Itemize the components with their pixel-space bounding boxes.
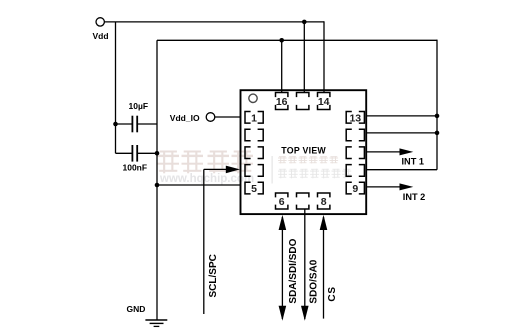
- pin 1: [245, 112, 251, 124]
- node cap top junction: [113, 122, 118, 127]
- wire SDA/SDI/SDO: [281, 217, 283, 319]
- wire pin10: [366, 169, 437, 171]
- ground symbol: [145, 319, 167, 321]
- pin 9: [346, 182, 352, 194]
- svg-text:6: 6: [279, 196, 285, 208]
- svg-text:9: 9: [352, 183, 358, 195]
- arrow SCL/SPC into pin4: [226, 166, 240, 174]
- arrow SDO/SA0 down: [301, 306, 309, 321]
- node cap bottom junction: [155, 151, 160, 156]
- wire pin13: [366, 115, 437, 117]
- svg-text:8: 8: [321, 196, 327, 208]
- svg-text:16: 16: [276, 96, 288, 108]
- svg-text:SCL/SPC: SCL/SPC: [208, 254, 219, 297]
- wire pin14 drop: [323, 21, 325, 92]
- wire Vdd drop to caps: [115, 22, 117, 124]
- wire pin15 drop: [303, 22, 305, 93]
- svg-text:100nF: 100nF: [123, 163, 148, 173]
- capacitor C2 100nF: [116, 152, 132, 154]
- svg-text:TOP VIEW: TOP VIEW: [281, 145, 326, 155]
- arrow CS up: [320, 215, 328, 230]
- node Vdd/pin15 junction: [302, 20, 307, 25]
- pin 16: [276, 93, 288, 98]
- pin 8: [318, 193, 330, 197]
- node pin12 junction: [435, 131, 440, 136]
- wire pin12: [366, 132, 437, 134]
- svg-text:10µF: 10µF: [129, 101, 149, 111]
- svg-text:INT 2: INT 2: [403, 192, 425, 202]
- pin 6: [276, 193, 288, 197]
- pin NC 7: [297, 193, 309, 197]
- svg-text:CS: CS: [327, 286, 338, 302]
- svg-text:5: 5: [251, 183, 257, 195]
- wire Vdd_IO to pin1: [215, 116, 241, 118]
- wire INT2: [366, 186, 400, 188]
- wire Vdd top rail: [104, 21, 324, 23]
- arrow SDA down: [279, 306, 287, 321]
- pin 5: [245, 182, 251, 194]
- svg-text:13: 13: [349, 112, 361, 124]
- pin NC 15: [297, 93, 309, 98]
- watermark: [158, 151, 352, 186]
- capacitor C1 10uF: [116, 123, 132, 125]
- svg-text:14: 14: [318, 96, 330, 108]
- svg-text:Vdd: Vdd: [93, 31, 109, 41]
- chip pin1 indicator circle: [249, 94, 257, 102]
- pin NC right 9: [346, 165, 352, 177]
- terminal Vdd_IO: [206, 113, 215, 122]
- pin 14: [318, 93, 330, 98]
- node pin16 junction: [279, 38, 284, 43]
- pin NC left 4: [245, 147, 251, 159]
- wire CS: [323, 217, 325, 319]
- pin 13: [346, 112, 352, 124]
- node pin13 junction: [435, 114, 440, 119]
- wire gnd rail horizontal: [157, 39, 437, 41]
- chip U1 outline: [241, 90, 367, 214]
- wire pin16 drop: [281, 40, 283, 92]
- wire SDO/SA0: [304, 209, 306, 319]
- terminal Vdd: [96, 18, 104, 26]
- arrow INT1: [400, 148, 414, 155]
- svg-text:Vdd_IO: Vdd_IO: [170, 113, 200, 123]
- arrow INT2: [400, 183, 414, 190]
- wire cap left drop: [115, 124, 117, 153]
- svg-text:1: 1: [251, 112, 257, 124]
- wire gnd vertical: [156, 40, 158, 320]
- svg-text:SDO/SA0: SDO/SA0: [308, 259, 319, 303]
- pin NC left 5: [245, 165, 251, 177]
- wire SCL/SPC vertical: [203, 169, 205, 314]
- wire SCL/SPC horizontal: [204, 168, 227, 170]
- pin NC right 11: [346, 129, 352, 141]
- svg-text:GND: GND: [127, 304, 146, 314]
- node pin5 branch junction: [155, 183, 160, 188]
- svg-text:SDA/SDI/SDO: SDA/SDI/SDO: [288, 238, 299, 303]
- pin NC right 10: [346, 147, 352, 159]
- wire gnd rail right vertical: [436, 40, 438, 170]
- pin NC left 3: [245, 129, 251, 141]
- svg-text:INT 1: INT 1: [402, 156, 424, 166]
- arrow SDA up: [279, 215, 287, 230]
- wire INT1: [366, 151, 400, 153]
- wire pin5 branch: [157, 184, 240, 186]
